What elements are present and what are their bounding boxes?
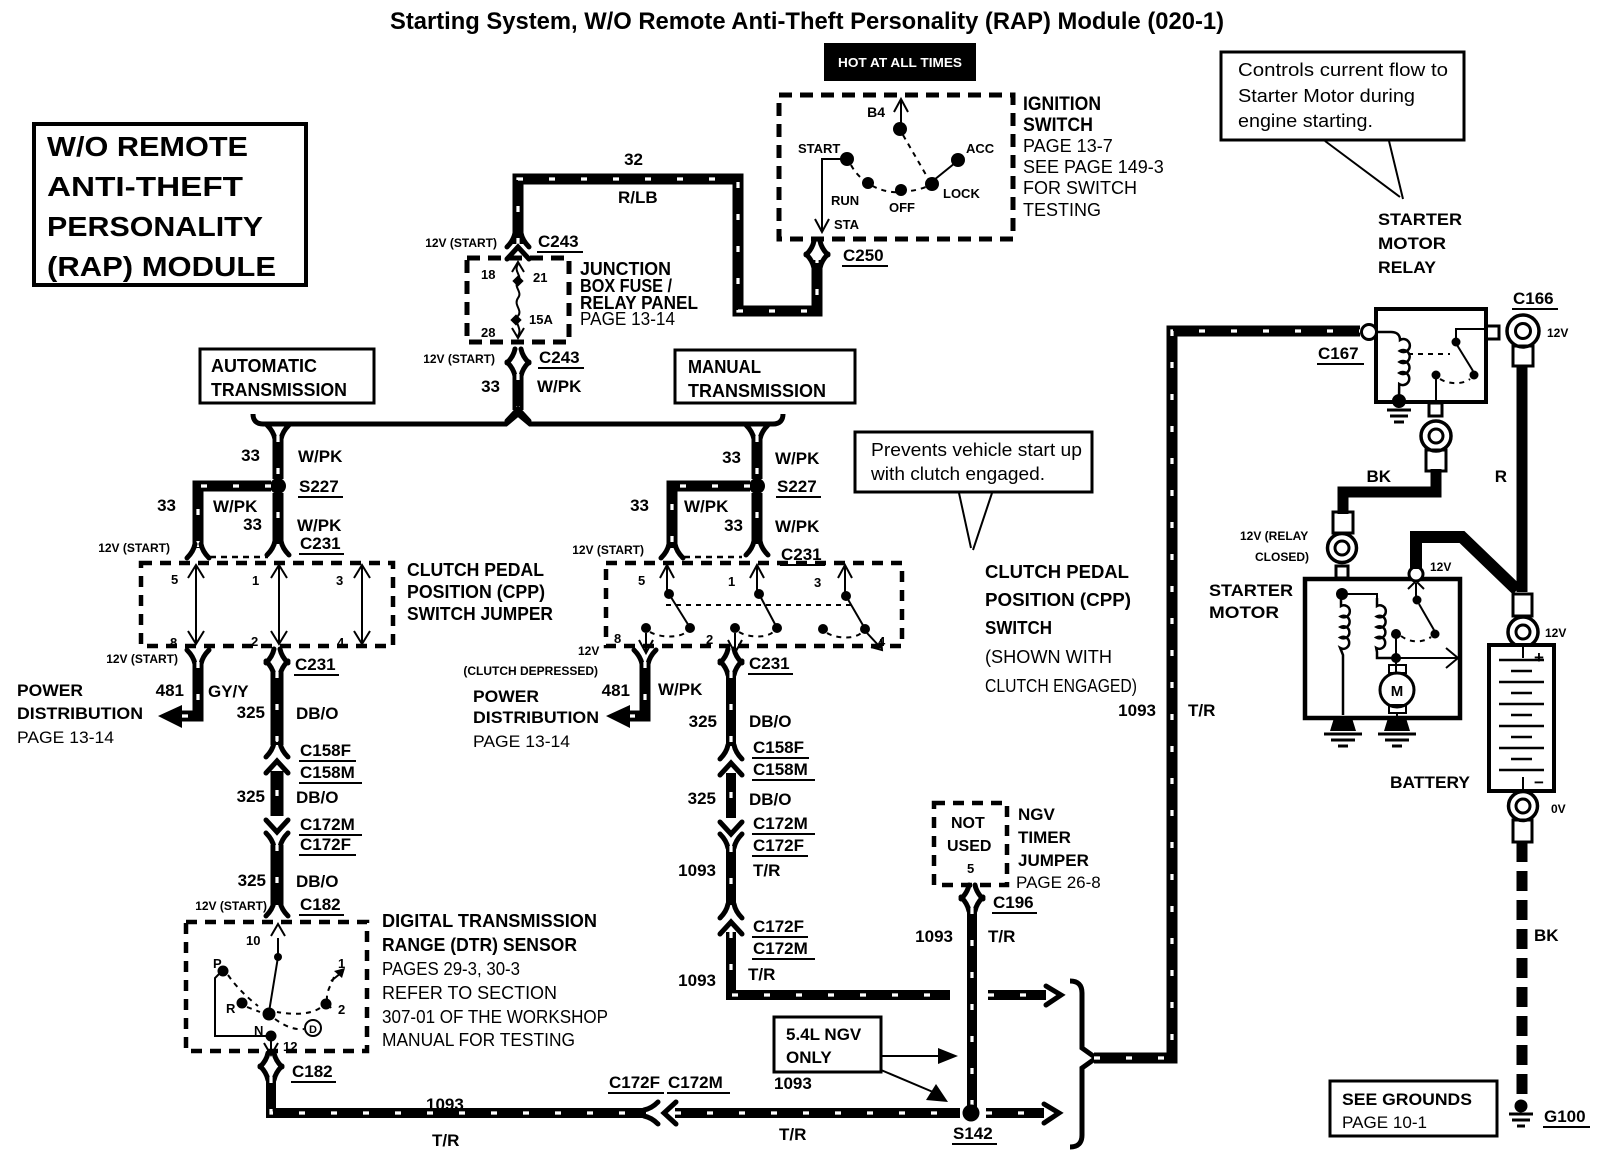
svg-text:TRANSMISSION: TRANSMISSION — [688, 381, 826, 401]
svg-text:325: 325 — [688, 789, 716, 808]
svg-text:3: 3 — [336, 573, 343, 588]
connector C158F/C158M (auto) — [266, 741, 362, 783]
svg-text:C231: C231 — [300, 534, 341, 553]
svg-text:12V: 12V — [1547, 326, 1568, 340]
wire 1093 T/R bottom left — [271, 1077, 646, 1150]
pole 2 — [750, 565, 764, 590]
svg-text:PAGE 13-14: PAGE 13-14 — [580, 309, 675, 329]
wire 325 DB/O C172F to C182 (auto) — [238, 845, 339, 905]
wire 325 DB/O C231 to C158F (auto) — [237, 672, 339, 745]
wire S142 to brace — [986, 1104, 1059, 1123]
svg-text:FOR SWITCH: FOR SWITCH — [1023, 178, 1137, 198]
svg-text:C172M: C172M — [753, 814, 808, 833]
svg-text:12V (START): 12V (START) — [106, 652, 178, 666]
output line to battery — [1396, 657, 1457, 659]
svg-text:33: 33 — [157, 496, 176, 515]
svg-text:325: 325 — [689, 712, 717, 731]
svg-text:CLOSED): CLOSED) — [1255, 550, 1309, 564]
svg-text:REFER TO SECTION: REFER TO SECTION — [382, 983, 557, 1003]
DTR caption — [382, 911, 608, 1050]
CPP switch caption — [985, 562, 1137, 696]
svg-text:C243: C243 — [538, 232, 579, 251]
battery — [1489, 645, 1554, 792]
svg-text:JUMPER: JUMPER — [1018, 851, 1089, 870]
svg-text:NOT: NOT — [951, 815, 985, 832]
HOT AT ALL TIMES banner — [824, 43, 976, 81]
B4 contact — [893, 122, 907, 136]
connector C182 (top) — [195, 895, 344, 916]
svg-text:1: 1 — [252, 573, 259, 588]
svg-text:5: 5 — [967, 861, 974, 876]
svg-text:SEE PAGE 149-3: SEE PAGE 149-3 — [1023, 157, 1164, 177]
svg-text:Controls current flow to: Controls current flow to — [1238, 60, 1448, 80]
DTR sensor internals — [213, 924, 345, 1055]
svg-text:PAGE 13-7: PAGE 13-7 — [1023, 136, 1113, 156]
svg-text:W/PK: W/PK — [684, 497, 729, 516]
svg-text:325: 325 — [237, 703, 265, 722]
svg-text:M: M — [1391, 683, 1404, 700]
connector C172F/C172M (bottom inline) — [608, 1073, 730, 1124]
svg-text:C172F: C172F — [609, 1073, 660, 1092]
svg-text:PAGE 13-14: PAGE 13-14 — [17, 728, 114, 747]
svg-text:R/LB: R/LB — [618, 188, 658, 207]
D circle — [305, 1020, 321, 1036]
OFF contact — [895, 184, 907, 196]
starter motor relay box — [1376, 309, 1486, 402]
svg-text:C158F: C158F — [300, 741, 351, 760]
svg-text:1093: 1093 — [774, 1074, 812, 1093]
svg-text:C231: C231 — [749, 654, 790, 673]
svg-text:MOTOR: MOTOR — [1378, 234, 1446, 253]
LOCK-ACC line — [934, 163, 955, 180]
connector C172M/C172F (auto) — [266, 815, 362, 855]
relay bottom tab — [1429, 403, 1442, 416]
svg-text:C172M: C172M — [668, 1073, 723, 1092]
svg-text:W/PK: W/PK — [213, 497, 258, 516]
relay fixed contact top — [1452, 338, 1461, 347]
pin12 arrow down — [264, 1041, 278, 1055]
relay coil — [1375, 332, 1410, 401]
relay output tab right — [1486, 326, 1499, 339]
jumper arrow 3 — [354, 565, 370, 644]
svg-text:C167: C167 — [1318, 344, 1359, 363]
svg-text:481: 481 — [156, 681, 184, 700]
svg-text:T/R: T/R — [988, 927, 1015, 946]
ring terminal relay output — [1421, 421, 1451, 471]
connector C231 below CPP pin2 — [720, 649, 793, 675]
svg-text:33: 33 — [630, 496, 649, 515]
svg-text:W/PK: W/PK — [658, 680, 703, 699]
wire 33 W/PK S227 to C231 (auto) — [243, 493, 344, 555]
svg-text:S142: S142 — [953, 1124, 993, 1143]
svg-text:C158F: C158F — [753, 738, 804, 757]
svg-text:Prevents vehicle start up: Prevents vehicle start up — [871, 440, 1082, 460]
ignition switch internals — [798, 99, 995, 232]
svg-text:POWER: POWER — [17, 681, 83, 700]
callout: controls current flow — [1221, 52, 1464, 199]
pole 3 — [838, 565, 852, 592]
svg-text:PERSONALITY: PERSONALITY — [47, 211, 263, 242]
svg-text:POSITION (CPP): POSITION (CPP) — [407, 582, 545, 602]
NOT USED dashed box — [934, 803, 1007, 885]
svg-text:DB/O: DB/O — [296, 872, 339, 891]
junction box caption — [580, 259, 698, 329]
pin10 arrow — [271, 924, 285, 955]
wire 32 R/LB from C243 to C250 — [518, 150, 817, 311]
svg-text:T/R: T/R — [748, 965, 775, 984]
connector C250 — [806, 241, 888, 268]
svg-text:C172M: C172M — [300, 815, 355, 834]
connector C158F/C158M (manual) — [720, 738, 815, 780]
svg-text:1: 1 — [728, 574, 735, 589]
ignition switch caption — [1023, 94, 1164, 220]
svg-text:1093: 1093 — [678, 971, 716, 990]
callout pointer — [1325, 141, 1403, 199]
svg-text:8: 8 — [170, 635, 177, 650]
wire 33 W/PK below fuse — [481, 374, 582, 421]
svg-text:21: 21 — [533, 270, 547, 285]
svg-text:W/O REMOTE: W/O REMOTE — [47, 131, 248, 162]
svg-text:SWITCH JUMPER: SWITCH JUMPER — [407, 604, 553, 624]
solenoid contacts — [1391, 629, 1401, 639]
wire 33 W/PK S227 to C231 (manual) — [724, 493, 825, 565]
connector C172F/C172M (manual lower) — [720, 904, 815, 959]
svg-text:(SHOWN WITH: (SHOWN WITH — [985, 647, 1112, 667]
svg-text:PAGE 26-8: PAGE 26-8 — [1016, 873, 1101, 892]
svg-text:DB/O: DB/O — [296, 704, 339, 723]
svg-text:Starter Motor during: Starter Motor during — [1238, 86, 1415, 106]
callout: prevents vehicle start up — [855, 432, 1092, 550]
svg-text:NGV: NGV — [1018, 805, 1056, 824]
starter motor box — [1305, 579, 1460, 718]
svg-text:ACC: ACC — [966, 141, 995, 156]
svg-text:(RAP) MODULE: (RAP) MODULE — [47, 251, 276, 282]
svg-text:SWITCH: SWITCH — [985, 618, 1052, 638]
automatic transmission box — [200, 349, 374, 403]
svg-text:IGNITION: IGNITION — [1023, 94, 1101, 115]
svg-text:PAGE 13-14: PAGE 13-14 — [473, 732, 570, 751]
svg-text:BK: BK — [1534, 926, 1559, 945]
svg-text:PAGES 29-3, 30-3: PAGES 29-3, 30-3 — [382, 959, 520, 979]
svg-text:28: 28 — [481, 325, 495, 340]
starter ground left — [1324, 718, 1362, 746]
svg-text:POSITION (CPP): POSITION (CPP) — [985, 590, 1131, 610]
STA wire w arrow — [822, 159, 841, 230]
wire 1093 T/R to brace (manual) — [678, 932, 1061, 1005]
svg-text:START: START — [798, 141, 840, 156]
connector below jumper pin8 — [106, 650, 209, 666]
ignition switch dashed box — [779, 95, 1013, 239]
svg-text:DB/O: DB/O — [749, 712, 792, 731]
svg-text:−: − — [1534, 773, 1544, 792]
fuse 15A — [481, 262, 553, 340]
wire 325 DB/O C231 to C158F (manual) — [689, 672, 792, 746]
starter motor internals — [1336, 560, 1458, 716]
battery positive terminal — [1508, 594, 1566, 647]
svg-text:W/PK: W/PK — [297, 516, 342, 535]
svg-text:12V (START): 12V (START) — [425, 236, 497, 250]
wire BK battery to G100 — [1522, 842, 1559, 1098]
START contact — [840, 152, 854, 166]
svg-text:STA: STA — [834, 217, 860, 232]
svg-text:C231: C231 — [295, 655, 336, 674]
svg-text:12V (START): 12V (START) — [98, 541, 170, 555]
svg-text:TESTING: TESTING — [1023, 200, 1101, 220]
battery negative terminal — [1509, 792, 1566, 843]
svg-text:engine starting.: engine starting. — [1238, 111, 1373, 131]
see grounds box — [1330, 1081, 1497, 1136]
svg-text:481: 481 — [602, 681, 630, 700]
svg-text:1093: 1093 — [915, 927, 953, 946]
manual transmission box — [675, 350, 855, 403]
svg-text:C182: C182 — [300, 895, 341, 914]
svg-text:C166: C166 — [1513, 289, 1554, 308]
svg-text:B4: B4 — [867, 104, 885, 120]
connector below CPP pin8 — [463, 644, 656, 678]
svg-text:1093: 1093 — [426, 1095, 464, 1114]
splice S227 (auto) — [270, 477, 343, 497]
jumper arrow 1 — [188, 565, 204, 644]
svg-text:12V (START): 12V (START) — [572, 543, 644, 557]
svg-text:ANTI-THEFT: ANTI-THEFT — [47, 171, 243, 202]
svg-text:CLUTCH PEDAL: CLUTCH PEDAL — [407, 560, 544, 580]
svg-text:STARTER: STARTER — [1378, 210, 1462, 229]
wire 481 W/PK to power distribution (manual) — [602, 662, 703, 728]
svg-text:PAGE 10-1: PAGE 10-1 — [1342, 1113, 1427, 1132]
svg-text:1093: 1093 — [678, 861, 716, 880]
svg-text:ONLY: ONLY — [786, 1048, 832, 1067]
svg-text:W/PK: W/PK — [775, 517, 820, 536]
pull-in coil — [1340, 600, 1350, 715]
svg-text:C182: C182 — [292, 1062, 333, 1081]
jumper arrow 2 — [271, 565, 287, 644]
connector C182 (bottom) — [260, 1053, 336, 1082]
ACC contact — [951, 153, 965, 167]
svg-text:RELAY: RELAY — [1378, 258, 1437, 277]
svg-text:G100: G100 — [1544, 1107, 1586, 1126]
wire 325 DB/O C158M to C172M (auto) — [237, 771, 339, 816]
svg-text:C196: C196 — [993, 893, 1034, 912]
power distribution caption (auto) — [17, 681, 143, 747]
power distribution caption (manual) — [473, 687, 599, 751]
svg-text:C243: C243 — [539, 348, 580, 367]
svg-text:AUTOMATIC: AUTOMATIC — [211, 356, 317, 376]
svg-text:5: 5 — [171, 572, 178, 587]
svg-text:LOCK: LOCK — [943, 186, 980, 201]
svg-text:MANUAL: MANUAL — [688, 357, 761, 377]
hold-in coil — [1376, 598, 1396, 658]
mech link dashed — [666, 604, 854, 606]
svg-text:DISTRIBUTION: DISTRIBUTION — [17, 704, 143, 723]
svg-text:DIGITAL TRANSMISSION: DIGITAL TRANSMISSION — [382, 911, 597, 931]
wire 33 W/PK left branch (auto) — [98, 486, 271, 558]
svg-text:33: 33 — [724, 516, 743, 535]
svg-text:CLUTCH ENGAGED): CLUTCH ENGAGED) — [985, 676, 1137, 696]
svg-text:W/PK: W/PK — [537, 377, 582, 396]
svg-text:12V: 12V — [1545, 626, 1566, 640]
svg-text:18: 18 — [481, 267, 495, 282]
wire 33 W/PK bus to S227 (auto) — [241, 425, 343, 479]
starter motor label — [1209, 581, 1293, 622]
svg-text:S227: S227 — [777, 477, 817, 496]
connector C172M/C172F (manual) — [720, 814, 815, 856]
svg-text:with clutch engaged.: with clutch engaged. — [870, 464, 1045, 484]
relay internals — [1317, 325, 1499, 423]
wire 481 GY/Y to power distribution (auto) — [156, 662, 250, 728]
wire 1093 T/R C172F to C172F (manual) — [678, 846, 780, 905]
svg-text:(CLUTCH DEPRESSED): (CLUTCH DEPRESSED) — [463, 664, 598, 678]
wire 325 DB/O C158M to C172M (manual) — [688, 773, 792, 818]
svg-text:1093: 1093 — [1118, 701, 1156, 720]
svg-text:C172F: C172F — [753, 836, 804, 855]
svg-text:BK: BK — [1366, 467, 1391, 486]
wire 1093 T/R bottom middle — [675, 1074, 960, 1144]
wire 33 W/PK left branch (manual) — [572, 486, 750, 558]
svg-text:33: 33 — [241, 446, 260, 465]
svg-text:325: 325 — [238, 871, 266, 890]
svg-text:DB/O: DB/O — [296, 788, 339, 807]
pole 1 — [660, 565, 674, 590]
wire battery jumper — [1416, 537, 1517, 590]
wire 1093 T/R riser to relay — [1094, 331, 1360, 1058]
svg-text:5.4L NGV: 5.4L NGV — [786, 1025, 862, 1044]
junction box fuse/relay panel dashed box — [467, 258, 569, 342]
ignition blade dotted — [903, 135, 929, 180]
CPP jumper caption — [407, 560, 553, 624]
wire 1093 T/R C196 to S142 — [915, 908, 1015, 1108]
starter ground right — [1378, 718, 1416, 746]
svg-text:C158M: C158M — [300, 763, 355, 782]
solenoid plunger from 12V — [1409, 567, 1423, 581]
svg-text:S227: S227 — [299, 477, 339, 496]
svg-text:C158M: C158M — [753, 760, 808, 779]
DTR sensor dashed box — [186, 922, 367, 1051]
svg-text:+: + — [1534, 648, 1544, 667]
svg-text:8: 8 — [614, 631, 621, 646]
svg-text:SEE GROUNDS: SEE GROUNDS — [1342, 1090, 1472, 1109]
svg-text:4: 4 — [337, 635, 345, 650]
svg-text:12V: 12V — [578, 644, 599, 658]
svg-text:T/R: T/R — [1188, 701, 1215, 720]
svg-text:T/R: T/R — [432, 1131, 459, 1150]
NGV timer caption — [1016, 805, 1101, 892]
svg-text:33: 33 — [243, 515, 262, 534]
svg-text:0V: 0V — [1551, 802, 1566, 816]
ground G100 — [1509, 1100, 1590, 1128]
svg-text:OFF: OFF — [889, 200, 915, 215]
relay blade — [1457, 345, 1473, 371]
splice S227 (manual) — [749, 477, 821, 497]
svg-text:32: 32 — [624, 150, 643, 169]
svg-text:3: 3 — [814, 575, 821, 590]
merge brace — [1070, 981, 1096, 1147]
svg-text:2: 2 — [338, 1002, 345, 1017]
svg-text:W/PK: W/PK — [298, 447, 343, 466]
svg-text:T/R: T/R — [753, 861, 780, 880]
svg-text:MANUAL FOR TESTING: MANUAL FOR TESTING — [382, 1030, 575, 1050]
wire 33 W/PK bus to S227 (manual) — [722, 425, 820, 479]
svg-text:2: 2 — [251, 634, 258, 649]
svg-text:C172F: C172F — [300, 835, 351, 854]
splice S142 — [952, 1105, 997, 1145]
relay dashed link — [1408, 353, 1450, 355]
CPP jumper pins + arrows — [170, 565, 370, 650]
svg-text:2: 2 — [706, 632, 713, 647]
svg-text:12V (RELAY: 12V (RELAY — [1240, 529, 1308, 543]
svg-text:12V (START): 12V (START) — [195, 899, 267, 913]
svg-text:R: R — [1495, 467, 1507, 486]
RUN contact — [862, 177, 874, 189]
CPP switch jumper dashed box — [141, 563, 393, 646]
svg-text:MOTOR: MOTOR — [1209, 603, 1279, 622]
svg-text:DB/O: DB/O — [749, 790, 792, 809]
starter motor relay label — [1378, 210, 1462, 277]
svg-text:C172F: C172F — [753, 917, 804, 936]
LOCK contact — [925, 177, 939, 191]
svg-text:10: 10 — [246, 933, 260, 948]
svg-text:C172M: C172M — [753, 939, 808, 958]
svg-text:5: 5 — [638, 573, 645, 588]
svg-text:C250: C250 — [843, 246, 884, 265]
svg-text:CLUTCH PEDAL: CLUTCH PEDAL — [985, 562, 1129, 582]
relay coil ground — [1392, 394, 1406, 408]
svg-text:12V: 12V — [1430, 560, 1451, 574]
svg-text:RANGE (DTR) SENSOR: RANGE (DTR) SENSOR — [382, 935, 577, 955]
svg-text:GY/Y: GY/Y — [208, 682, 249, 701]
detent dashed arc — [851, 165, 928, 192]
connector C231 below jumper pin2 — [266, 649, 339, 675]
svg-text:D: D — [309, 1024, 317, 1036]
svg-text:STARTER: STARTER — [1209, 581, 1293, 600]
CPP switch internals — [614, 565, 886, 653]
svg-text:325: 325 — [237, 787, 265, 806]
svg-text:N: N — [254, 1023, 263, 1038]
svg-text:DISTRIBUTION: DISTRIBUTION — [473, 708, 599, 727]
svg-text:33: 33 — [481, 377, 500, 396]
svg-text:HOT AT ALL TIMES: HOT AT ALL TIMES — [838, 55, 962, 70]
wire BK relay to starter — [1343, 467, 1436, 514]
svg-text:TRANSMISSION: TRANSMISSION — [211, 380, 347, 400]
svg-text:R: R — [226, 1001, 236, 1016]
connector C243 (top) — [425, 232, 583, 259]
motor — [1389, 665, 1406, 673]
ring terminal C166 — [1507, 289, 1568, 366]
RAP module label box — [34, 124, 306, 285]
connector C196 — [961, 885, 1037, 913]
B4 arrow — [900, 100, 902, 127]
svg-text:12: 12 — [283, 1039, 297, 1054]
connector C243 (bottom) — [423, 348, 584, 376]
svg-text:TIMER: TIMER — [1018, 828, 1071, 847]
5.4L NGV ONLY callout — [774, 1017, 958, 1102]
N junction — [263, 1008, 276, 1021]
svg-text:T/R: T/R — [779, 1125, 806, 1144]
detent dashed arcs — [228, 975, 258, 1006]
svg-text:RUN: RUN — [831, 193, 859, 208]
feed junction — [1336, 588, 1348, 600]
svg-text:15A: 15A — [529, 312, 553, 327]
starter solenoid terminal — [1240, 512, 1357, 578]
svg-text:SWITCH: SWITCH — [1023, 115, 1093, 136]
splice bus brace — [253, 414, 783, 424]
CPP switch dashed box — [606, 563, 902, 646]
svg-text:307-01 OF THE WORKSHOP: 307-01 OF THE WORKSHOP — [382, 1007, 608, 1027]
svg-text:USED: USED — [947, 838, 991, 855]
svg-text:W/PK: W/PK — [775, 449, 820, 468]
svg-text:33: 33 — [722, 448, 741, 467]
svg-text:POWER: POWER — [473, 687, 539, 706]
wire R C166 to battery — [1495, 365, 1522, 592]
